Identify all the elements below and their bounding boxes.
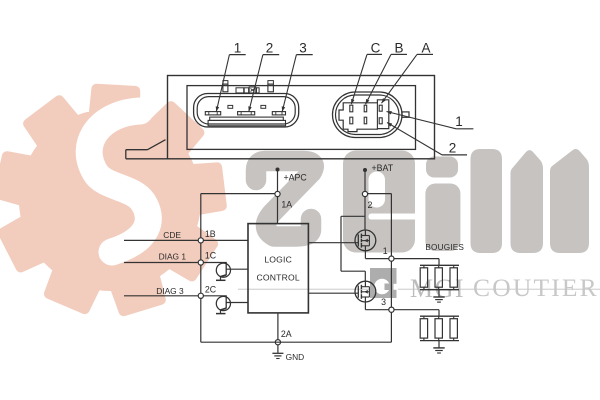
svg-text:BOUGIES: BOUGIES bbox=[425, 243, 464, 252]
svg-text:1C: 1C bbox=[205, 251, 217, 261]
svg-text:1: 1 bbox=[383, 246, 388, 256]
svg-text:A: A bbox=[421, 41, 430, 56]
svg-text:3: 3 bbox=[299, 41, 307, 56]
svg-text:GND: GND bbox=[286, 352, 305, 362]
svg-text:2: 2 bbox=[368, 200, 373, 210]
svg-text:+BAT: +BAT bbox=[372, 163, 394, 173]
svg-text:CONTROL: CONTROL bbox=[256, 272, 299, 282]
svg-text:1B: 1B bbox=[205, 229, 216, 239]
svg-text:1: 1 bbox=[234, 41, 242, 56]
svg-text:1A: 1A bbox=[281, 200, 292, 210]
svg-text:B: B bbox=[394, 41, 403, 56]
svg-text:DIAG 1: DIAG 1 bbox=[159, 251, 187, 261]
svg-text:CDE: CDE bbox=[163, 230, 181, 240]
svg-text:2A: 2A bbox=[281, 329, 292, 339]
svg-text:2C: 2C bbox=[205, 285, 217, 295]
svg-text:LOGIC: LOGIC bbox=[264, 254, 292, 264]
svg-text:+APC: +APC bbox=[284, 173, 308, 183]
svg-text:COUTIER: COUTIER bbox=[473, 273, 599, 302]
svg-text:1: 1 bbox=[455, 114, 463, 129]
svg-text:2: 2 bbox=[266, 41, 274, 56]
svg-text:DIAG 3: DIAG 3 bbox=[156, 286, 184, 296]
svg-text:3: 3 bbox=[381, 297, 386, 307]
svg-text:C: C bbox=[371, 41, 381, 56]
svg-text:2: 2 bbox=[449, 141, 457, 156]
